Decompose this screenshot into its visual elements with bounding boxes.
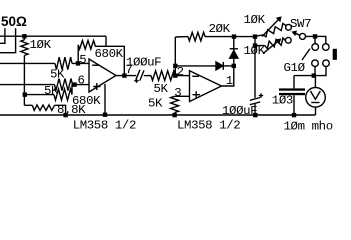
wire feedback jog <box>95 46 124 75</box>
resistor R 10K vertical <box>21 36 28 55</box>
svg-text:5K: 5K <box>50 68 65 82</box>
wire to 5K-2 <box>0 84 55 86</box>
wire C1 to 5K-3 <box>144 75 151 77</box>
svg-text:5K: 5K <box>148 96 163 110</box>
node pin2 <box>173 73 177 77</box>
op-amp U1b plus <box>193 91 201 98</box>
op-amp U1b triangle <box>190 71 222 102</box>
wire sensor terminal 2 <box>0 28 16 53</box>
svg-text:5K: 5K <box>154 82 169 96</box>
wire C2 to rail <box>254 104 256 116</box>
wire op1 output <box>116 75 136 77</box>
node 5K-4 gnd <box>172 113 176 117</box>
trimpot 10K-2 wiper <box>263 39 280 53</box>
node 10K bottom <box>23 92 27 96</box>
op-amp U1a triangle <box>89 59 116 92</box>
resistor 5K-1 <box>55 57 72 69</box>
node pin2 upper <box>173 64 177 68</box>
node meter top <box>312 73 316 77</box>
wire pin3 <box>175 95 190 97</box>
wire 10K bottom <box>23 55 25 105</box>
svg-text:1ØØuF: 1ØØuF <box>222 104 257 118</box>
wire node to c4 <box>314 36 316 43</box>
node pin5 <box>76 61 80 65</box>
capacitor C2 plus <box>259 93 263 97</box>
resistor 8.8K <box>24 105 65 115</box>
resistor 20K <box>188 32 205 41</box>
node C3 gnd <box>292 113 296 117</box>
capacitor C3 103 plates <box>279 88 305 90</box>
svg-text:1Øm mho: 1Øm mho <box>284 120 333 134</box>
contact circle c7 <box>323 60 330 67</box>
wire pot branch riser <box>254 37 256 46</box>
wire pin2 to op2 <box>175 75 189 77</box>
trimpot 10K-1 wiper <box>262 17 281 36</box>
wire op2 output <box>222 68 234 86</box>
voltmeter V <box>311 91 321 99</box>
svg-text:1ØK: 1ØK <box>30 38 52 52</box>
svg-text:6: 6 <box>78 74 85 88</box>
wire pin2 riser <box>174 37 176 76</box>
op-amp U1a plus <box>93 83 100 90</box>
svg-text:2: 2 <box>177 65 184 79</box>
wire 5K-2 to pin6 <box>73 84 90 86</box>
node C2 gnd <box>253 113 257 117</box>
node rail 8.8K <box>63 113 67 117</box>
wire to 5K-1 <box>0 62 55 64</box>
terminal bar <box>333 49 337 60</box>
wire sensor terminal 1 <box>0 28 5 43</box>
contact circle c1 <box>286 24 292 30</box>
wire D2 leads <box>233 37 235 66</box>
wire 5K-1 to pin5 <box>72 62 89 64</box>
svg-text:50Ω: 50Ω <box>1 14 27 29</box>
wire 20K top <box>175 36 188 38</box>
node pot1 branch <box>253 34 257 38</box>
svg-text:680K: 680K <box>95 47 124 61</box>
wire meter to rail <box>315 107 317 115</box>
voltmeter circle <box>306 88 326 108</box>
resistor 5K-2 <box>55 79 73 91</box>
svg-text:LM358 1/2: LM358 1/2 <box>177 119 240 133</box>
wire to 680K-2 <box>25 94 54 96</box>
capacitor C2 100uF <box>250 98 260 105</box>
node pin6 <box>72 82 76 86</box>
wire top input <box>0 35 106 37</box>
capacitor C1 plus <box>134 79 138 83</box>
node sw right <box>313 34 317 38</box>
svg-text:5: 5 <box>79 53 86 67</box>
svg-text:5K: 5K <box>44 84 59 98</box>
svg-text:LM358 1/2: LM358 1/2 <box>73 118 136 132</box>
node pot2 branch <box>253 43 257 47</box>
svg-text:1ØK: 1ØK <box>244 13 266 27</box>
wire top to jog <box>105 36 107 46</box>
svg-text:1ØØuF: 1ØØuF <box>126 56 161 70</box>
contact circle c3 <box>285 37 291 43</box>
wire 20K to pots <box>205 36 255 38</box>
diode D2 <box>230 51 238 59</box>
resistor 680K-1 leg <box>77 45 79 64</box>
contact circle c4 <box>312 44 319 51</box>
resistor 5K-4 vertical <box>171 96 179 115</box>
capacitor C3 leads <box>293 76 295 115</box>
switch G10 wiper <box>302 49 310 60</box>
wire D1 to node <box>223 65 234 67</box>
wire pot2 down <box>254 46 256 98</box>
ground rail <box>0 114 316 116</box>
node U1a gnd <box>103 113 107 117</box>
contact circle c6 <box>312 60 319 67</box>
resistor 680K-2 <box>54 85 72 101</box>
svg-text:1Ø3: 1Ø3 <box>272 93 293 107</box>
resistor 5K-3 <box>151 71 175 81</box>
node 20K branch <box>232 34 236 38</box>
wire c6 c7 join <box>294 67 326 76</box>
node op1 output <box>122 73 126 77</box>
wire diode branch <box>175 65 216 67</box>
svg-text:2ØK: 2ØK <box>209 22 231 36</box>
op-amp U1b minus <box>192 75 199 77</box>
svg-text:G1Ø: G1Ø <box>284 61 306 75</box>
switch SW7 wiper <box>293 32 300 35</box>
wire meter lead <box>314 76 316 88</box>
svg-text:3: 3 <box>174 86 181 100</box>
contact circle c2 <box>300 33 306 39</box>
diode D1 <box>216 62 223 70</box>
resistor 680K-1 <box>78 41 95 50</box>
node diode junction <box>232 64 236 68</box>
op-amp U1a minus <box>92 64 99 66</box>
op-amp U1a gnd stub <box>104 84 106 115</box>
trimpot 10K-2 <box>255 38 286 49</box>
wire c2 to matrix <box>306 36 326 43</box>
capacitor C1 100uF <box>136 70 144 81</box>
trimpot 10K-1 <box>255 24 286 37</box>
node 10K top <box>22 34 26 38</box>
contact circle c5 <box>323 44 330 51</box>
svg-text:SW7: SW7 <box>290 17 311 31</box>
